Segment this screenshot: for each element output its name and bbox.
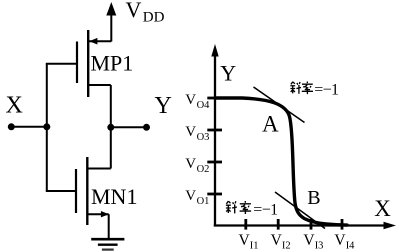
ground: [91, 239, 124, 249]
label VO1: [185, 188, 209, 207]
svg-text:B: B: [307, 187, 320, 209]
svg-text:I4: I4: [346, 241, 355, 251]
wire to Y terminal: [111, 126, 147, 128]
label VI1: [239, 232, 259, 251]
slope label bottom: xie character: [226, 201, 237, 213]
label VI4: [334, 232, 355, 251]
svg-text:V: V: [185, 92, 196, 108]
tick VO2: [207, 161, 222, 164]
label VO3: [185, 124, 209, 143]
tick VO3: [207, 129, 222, 132]
junction dot on gate bus: [43, 123, 50, 130]
tick VI3: [310, 219, 313, 230]
svg-text:O2: O2: [197, 164, 210, 175]
y-axis: [211, 44, 218, 227]
svg-text:O4: O4: [197, 100, 211, 111]
svg-text:=−1: =−1: [314, 82, 339, 99]
slope label top: lv character: [302, 82, 313, 95]
slope label top: xie character: [290, 82, 301, 94]
tick VO1: [207, 193, 222, 196]
node X terminal dot: [8, 123, 15, 130]
svg-text:O3: O3: [197, 132, 210, 143]
node Y terminal dot: [143, 124, 150, 131]
svg-text:I2: I2: [282, 241, 291, 251]
svg-text:V: V: [126, 0, 142, 22]
wire bus to MN1 gate: [46, 190, 76, 192]
svg-text:A: A: [262, 112, 279, 137]
svg-text:V: V: [334, 232, 346, 249]
label VO4: [185, 92, 210, 111]
transistor MP1: [77, 30, 111, 97]
wire MN1 source to ground: [108, 214, 110, 239]
gate bus vertical wire: [46, 64, 48, 191]
junction dot node Y: [107, 124, 114, 131]
svg-text:Y: Y: [220, 60, 236, 85]
label VO2: [185, 156, 209, 175]
tick VO4: [207, 97, 222, 100]
wire MP1 drain to node Y: [110, 85, 112, 127]
tick VI1: [244, 219, 247, 230]
transfer curve: [216, 98, 347, 225]
wire X to gate bus: [11, 126, 47, 128]
svg-text:V: V: [271, 232, 283, 249]
svg-text:MN1: MN1: [91, 184, 137, 209]
wire bus to MP1 gate: [46, 63, 77, 65]
label VI3: [303, 232, 323, 251]
label VDD: [126, 0, 165, 26]
x-axis: [214, 222, 396, 229]
svg-text:O1: O1: [197, 196, 210, 207]
svg-text:V: V: [185, 156, 196, 172]
svg-text:V: V: [185, 124, 196, 140]
svg-text:V: V: [303, 232, 315, 249]
svg-text:I1: I1: [250, 241, 259, 251]
svg-text:X: X: [374, 196, 391, 221]
label VI2: [271, 232, 291, 251]
transistor MN1: [76, 157, 111, 225]
svg-text:=−1: =−1: [253, 201, 278, 218]
svg-text:X: X: [6, 93, 23, 119]
svg-text:V: V: [185, 188, 196, 204]
tangent line at A: [254, 87, 305, 123]
wire node Y to MN1 drain: [110, 127, 112, 168]
tick VI4: [341, 219, 344, 230]
svg-text:DD: DD: [143, 10, 165, 26]
slope label bottom: lv character: [240, 201, 252, 214]
tangent line at B: [275, 192, 325, 229]
svg-text:V: V: [239, 232, 251, 249]
svg-text:Y: Y: [155, 93, 172, 119]
svg-text:MP1: MP1: [91, 51, 134, 76]
power VDD arrow: [106, 2, 116, 42]
tick VI2: [277, 219, 280, 230]
svg-text:I3: I3: [315, 241, 324, 251]
